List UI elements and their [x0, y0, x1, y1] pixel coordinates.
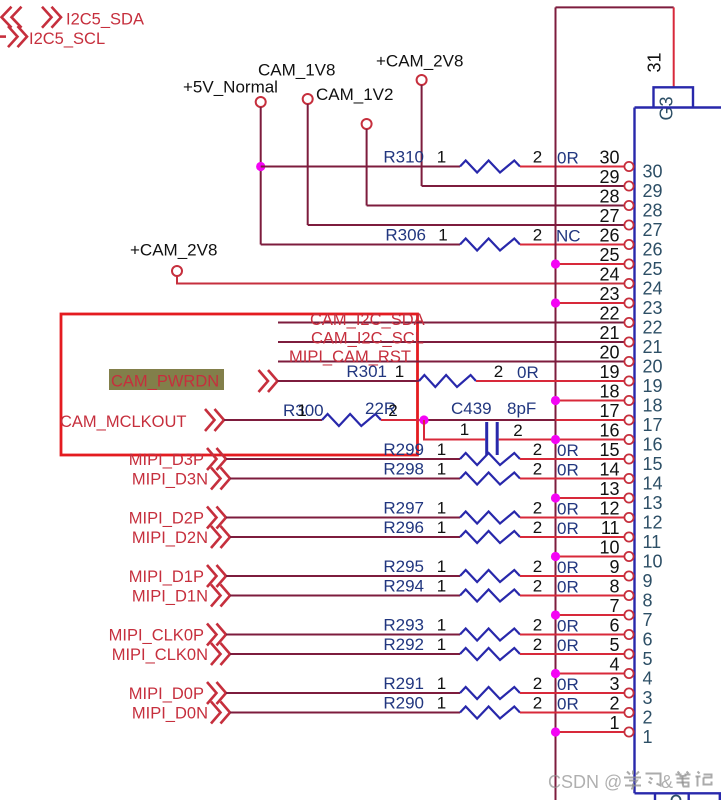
resistor R298 label [383, 460, 424, 479]
power terminal +CAM_2V8 lower [130, 241, 217, 277]
svg-text:0R: 0R [557, 441, 579, 460]
pin circle 21 [624, 337, 633, 346]
wire R292 to pin 5 [520, 653, 624, 655]
svg-text:1: 1 [297, 401, 306, 420]
pin number label 19 [599, 362, 619, 382]
connector pin number 13 [643, 493, 663, 513]
svg-text:0R: 0R [557, 617, 579, 636]
wire R295 to pin 9 [520, 575, 624, 577]
connector pin number 26 [643, 240, 663, 260]
wire ground bus to pin 25 [556, 263, 625, 265]
connector G1 label [672, 796, 681, 800]
pin circle 1 [624, 727, 633, 736]
svg-text:CAM_1V8: CAM_1V8 [258, 61, 335, 80]
net label MIPI_D3N [132, 471, 208, 489]
wire CAM_1V8 to pin 27 [308, 224, 625, 226]
resistor R293 [460, 629, 520, 641]
connector pin number 5 [643, 649, 653, 669]
connector pin number 16 [643, 435, 663, 455]
connector pin number 6 [643, 630, 653, 650]
connector pin number 4 [643, 669, 653, 689]
svg-text:11: 11 [601, 518, 620, 538]
port chevron MIPI_D3N [211, 468, 230, 490]
wire ground bus to pin 18 [556, 400, 625, 402]
connector pin number 12 [643, 513, 663, 533]
connector pin number 3 [643, 688, 653, 708]
resistor R297 [460, 512, 520, 524]
resistor R295 label [383, 557, 424, 576]
pin 1 label R306 [438, 226, 447, 245]
svg-text:1: 1 [437, 440, 446, 459]
port chevron I2C5_SDA input [2, 7, 62, 28]
svg-text:2: 2 [533, 616, 542, 635]
pin 2 label C439 [513, 421, 522, 440]
value 0R pin14 [557, 461, 579, 480]
svg-text:+CAM_2V8: +CAM_2V8 [376, 52, 463, 71]
svg-text:NC: NC [556, 227, 581, 246]
value 0R pin3 [557, 675, 579, 694]
svg-text:14: 14 [643, 474, 663, 494]
connector G2 mounting box [719, 793, 721, 800]
power terminal CAM_1V8 [258, 61, 335, 105]
net label MIPI_CLK0P [109, 627, 204, 645]
svg-text:0R: 0R [557, 695, 579, 714]
wire R293 to pin 6 [520, 634, 624, 636]
wire node to ground-bus crossing [424, 419, 556, 421]
pin 2 label R299 [533, 440, 542, 459]
pin 2 label R295 [533, 557, 542, 576]
svg-text:0R: 0R [557, 461, 579, 480]
value 0R pin11 [557, 519, 579, 538]
svg-text:31: 31 [645, 52, 665, 72]
svg-text:1: 1 [437, 616, 446, 635]
wire MIPI_CAM_RST [278, 361, 624, 363]
connector pin number 22 [643, 318, 663, 338]
pin number label 29 [599, 167, 619, 187]
svg-text:4: 4 [609, 655, 619, 675]
svg-text:2: 2 [533, 674, 542, 693]
wire ground bus to pin 13 [556, 497, 625, 499]
wire CAM_I2C_SDA [278, 322, 624, 324]
connector pin number 17 [643, 415, 663, 435]
pin circle 22 [624, 318, 633, 327]
svg-text:0R: 0R [557, 149, 579, 168]
junction ground pin 18 [551, 396, 560, 405]
resistor R306 label [385, 226, 426, 245]
svg-text:1: 1 [395, 362, 404, 381]
connector pin number 27 [643, 220, 663, 240]
svg-text:9: 9 [609, 557, 619, 577]
value 0R pin15 [557, 441, 579, 460]
svg-text:1: 1 [438, 226, 447, 245]
resistor R297 label [383, 499, 424, 518]
wire MIPI_D1N to R294 [230, 595, 460, 597]
wire ground bus to pin 4 [556, 673, 625, 675]
value 0R pin9 [557, 558, 579, 577]
pin number label 11 [601, 518, 620, 538]
svg-text:2: 2 [533, 635, 542, 654]
svg-text:18: 18 [599, 382, 619, 402]
wire MIPI_D2P to R297 [226, 517, 460, 519]
pin number label 8 [609, 577, 619, 597]
svg-text:29: 29 [643, 181, 663, 201]
svg-text:R296: R296 [383, 518, 424, 537]
connector pin number 29 [643, 181, 663, 201]
connector G1 mounting box [655, 793, 689, 800]
svg-text:30: 30 [643, 162, 663, 182]
junction ground pin 4 [551, 669, 560, 678]
resistor R310 [460, 161, 520, 173]
svg-text:30: 30 [599, 148, 619, 168]
resistor R300 label [283, 401, 324, 420]
connector pin number 20 [643, 357, 663, 377]
net label MIPI_D1P [129, 568, 204, 586]
svg-text:7: 7 [643, 610, 653, 630]
resistor R295 [460, 570, 520, 582]
resistor R306 [460, 239, 520, 251]
pin number label 12 [599, 499, 619, 519]
svg-text:R295: R295 [383, 557, 424, 576]
svg-text:19: 19 [643, 376, 663, 396]
pin number label 2 [609, 694, 619, 714]
svg-text:0R: 0R [557, 636, 579, 655]
pin circle 28 [624, 201, 633, 210]
svg-text:28: 28 [599, 187, 619, 207]
pin number label 5 [609, 635, 619, 655]
svg-text:R291: R291 [383, 674, 424, 693]
junction ground pin 25 [551, 259, 560, 268]
svg-text:1: 1 [437, 518, 446, 537]
svg-text:29: 29 [599, 167, 619, 187]
svg-text:MIPI_D2P: MIPI_D2P [129, 510, 204, 528]
power terminal CAM_1V2 [316, 85, 393, 129]
connector pin number 25 [643, 259, 663, 279]
pin 2 label R291 [533, 674, 542, 693]
svg-text:2: 2 [533, 440, 542, 459]
svg-text:28: 28 [643, 201, 663, 221]
pin 2 label R310 [533, 148, 542, 167]
svg-text:MIPI_D0N: MIPI_D0N [132, 705, 208, 723]
junction ground pin 10 [551, 552, 560, 561]
net label CAM_MCLKOUT [60, 413, 187, 431]
svg-text:19: 19 [599, 362, 619, 382]
value 0R pin5 [557, 636, 579, 655]
pin circle 8 [624, 591, 633, 600]
pin 1 label R310 [437, 148, 446, 167]
svg-text:R310: R310 [383, 148, 424, 167]
pin number label 14 [599, 460, 619, 480]
connector pin number 1 [643, 727, 653, 747]
connector pin number 2 [643, 708, 653, 728]
pin number label 22 [599, 304, 619, 324]
wire ground bus to pin 23 [556, 302, 625, 304]
svg-text:11: 11 [643, 532, 662, 552]
net label CAM_I2C_SCL [311, 330, 424, 348]
junction ground pin 1 [551, 727, 560, 736]
svg-text:MIPI_D0P: MIPI_D0P [129, 685, 204, 703]
pin 2 label R290 [533, 694, 542, 713]
wire CAM_1V2 to pin 28 [367, 205, 625, 207]
wire MIPI_D2N to R296 [230, 536, 460, 538]
pin number label 21 [599, 323, 619, 343]
svg-text:CAM_MCLKOUT: CAM_MCLKOUT [60, 413, 187, 431]
pin number label 15 [599, 440, 619, 460]
pin circle 29 [624, 181, 633, 190]
pin circle 26 [624, 240, 633, 249]
pin number label 13 [599, 479, 619, 499]
net label CAM_I2C_SDA [310, 311, 425, 329]
connector pin number 28 [643, 201, 663, 221]
svg-text:R294: R294 [383, 577, 424, 596]
svg-text:R298: R298 [383, 460, 424, 479]
svg-text:3: 3 [609, 674, 619, 694]
resistor R296 [460, 531, 520, 543]
svg-text:21: 21 [643, 337, 663, 357]
connector pin number 8 [643, 591, 653, 611]
pin circle 13 [624, 493, 633, 502]
wire CAM_I2C_SCL [278, 341, 624, 343]
pin number label 30 [599, 148, 619, 168]
svg-text:2: 2 [609, 694, 619, 714]
wire R291 to pin 3 [520, 692, 624, 694]
junction ground pin 16 [551, 435, 560, 444]
svg-text:0R: 0R [557, 519, 579, 538]
pin circle 14 [624, 474, 633, 483]
pin number label 23 [599, 284, 619, 304]
wire +CAM_2V8 to pin 24 [177, 277, 624, 284]
svg-text:I2C5_SDA: I2C5_SDA [66, 11, 144, 29]
svg-text:2: 2 [533, 499, 542, 518]
svg-text:CSDN @: CSDN @ [548, 772, 622, 792]
wire +CAM_2V8 to pin 29 [422, 185, 625, 187]
svg-text:15: 15 [643, 454, 663, 474]
resistor R294 label [383, 577, 424, 596]
pin circle 4 [624, 669, 633, 678]
svg-text:7: 7 [609, 596, 619, 616]
pin number label 10 [599, 538, 619, 558]
connector G3 label [657, 96, 677, 120]
label pin 31 [645, 52, 665, 72]
net label I2C5_SDA [66, 11, 144, 29]
svg-text:+CAM_2V8: +CAM_2V8 [130, 241, 217, 260]
wire R300 to node [381, 419, 424, 421]
junction ground pin 23 [551, 298, 560, 307]
junction +5V / R310 [256, 162, 265, 171]
wire top horizontal to pin 31 [556, 6, 674, 8]
power terminal +CAM_2V8 [376, 52, 463, 86]
wire CAM_PWRDN to R301 [278, 380, 420, 382]
net highlight CAM_PWRDN [109, 369, 224, 390]
connector pin number 21 [643, 337, 663, 357]
wire R290 to pin 2 [520, 712, 624, 714]
svg-text:0R: 0R [557, 578, 579, 597]
pin number label 17 [599, 401, 619, 421]
svg-text:R301: R301 [346, 362, 387, 381]
junction node MCLK / C439 [419, 415, 428, 424]
net label MIPI_D0N [132, 705, 208, 723]
svg-text:1: 1 [609, 713, 619, 733]
pin 2 label R292 [533, 635, 542, 654]
pin number label 24 [599, 265, 619, 285]
wire node to C439 [424, 420, 485, 440]
port chevron CAM_MCLKOUT [205, 409, 224, 431]
pin circle 20 [624, 357, 633, 366]
ground bus vertical [555, 7, 557, 800]
wire crossing to pin 17 [556, 419, 625, 421]
svg-text:18: 18 [643, 396, 663, 416]
pin 1 label R294 [437, 577, 446, 596]
pin circle 30 [624, 162, 633, 171]
pin circle 27 [624, 220, 633, 229]
svg-text:CAM_I2C_SCL: CAM_I2C_SCL [311, 330, 424, 348]
pin 1 label R297 [437, 499, 446, 518]
connector body outline [635, 108, 721, 794]
resistor R292 label [383, 635, 424, 654]
pin number label 4 [609, 655, 619, 675]
wire +5V_Normal vertical [260, 107, 262, 245]
pin number label 6 [609, 616, 619, 636]
net label MIPI_CLK0N [112, 646, 208, 664]
connector pin number 10 [643, 552, 663, 572]
connector pin number 7 [643, 610, 653, 630]
wire ground bus to pin 10 [556, 556, 625, 558]
wire R296 to pin 11 [520, 536, 624, 538]
pin number label 20 [599, 343, 619, 363]
svg-text:9: 9 [643, 571, 653, 591]
svg-text:MIPI_CLK0N: MIPI_CLK0N [112, 646, 208, 664]
svg-text:2: 2 [643, 708, 653, 728]
svg-text:24: 24 [599, 265, 619, 285]
resistor R291 label [383, 674, 424, 693]
svg-text:25: 25 [643, 259, 663, 279]
resistor R301 label [346, 362, 387, 381]
port chevron CAM_PWRDN [259, 370, 278, 392]
pin 1 label R296 [437, 518, 446, 537]
svg-text:23: 23 [599, 284, 619, 304]
pin circle 6 [624, 630, 633, 639]
svg-text:I2C5_SCL: I2C5_SCL [29, 30, 105, 48]
port chevron I2C5_SCL input [0, 26, 27, 47]
port chevron MIPI_D0N [211, 702, 230, 724]
svg-text:1: 1 [437, 148, 446, 167]
svg-text:5: 5 [643, 649, 653, 669]
resistor R299 label [383, 440, 424, 459]
svg-text:6: 6 [609, 616, 619, 636]
pin circle 15 [624, 454, 633, 463]
wire MIPI_D3N to R298 [230, 478, 460, 480]
connector pin number 11 [643, 532, 662, 552]
wire R297 to pin 12 [520, 517, 624, 519]
net label MIPI_CAM_RST [289, 348, 411, 366]
svg-text:5: 5 [609, 635, 619, 655]
wire CAM_1V8 vertical [307, 104, 309, 225]
svg-text:R293: R293 [383, 616, 424, 635]
pin circle 5 [624, 649, 633, 658]
svg-text:4: 4 [643, 669, 653, 689]
net label MIPI_D3P [129, 451, 204, 469]
svg-text:12: 12 [599, 499, 619, 519]
pin circle 11 [624, 532, 633, 541]
resistor R292 [460, 648, 520, 660]
svg-text:2: 2 [533, 557, 542, 576]
wire R294 to pin 8 [520, 595, 624, 597]
svg-text:22: 22 [599, 304, 619, 324]
svg-text:12: 12 [643, 513, 663, 533]
wire +CAM_2V8 vertical [421, 85, 423, 186]
pin 2 label R298 [533, 460, 542, 479]
pin number label 3 [609, 674, 619, 694]
svg-text:22: 22 [643, 318, 663, 338]
svg-text:CAM_I2C_SDA: CAM_I2C_SDA [310, 311, 425, 329]
svg-text:1: 1 [437, 460, 446, 479]
pin 1 label R291 [437, 674, 446, 693]
svg-text:R306: R306 [385, 226, 426, 245]
wire R301 to pin 19 [476, 380, 624, 382]
pin 2 label R294 [533, 577, 542, 596]
svg-text:1: 1 [437, 694, 446, 713]
pin 1 label C439 [460, 420, 469, 439]
svg-text:0R: 0R [517, 363, 539, 382]
svg-text:MIPI_D1N: MIPI_D1N [132, 588, 208, 606]
wire MIPI_D0P to R291 [226, 692, 460, 694]
svg-text:CAM_1V2: CAM_1V2 [316, 85, 393, 104]
svg-text:R299: R299 [383, 440, 424, 459]
svg-text:2: 2 [533, 518, 542, 537]
svg-text:MIPI_CLK0P: MIPI_CLK0P [109, 627, 204, 645]
value 0R pin19 [517, 363, 539, 382]
svg-text:1: 1 [643, 727, 653, 747]
svg-text:27: 27 [599, 206, 619, 226]
svg-text:1: 1 [437, 577, 446, 596]
svg-text:23: 23 [643, 298, 663, 318]
svg-text:10: 10 [643, 552, 663, 572]
port chevron MIPI_D2P [207, 507, 226, 529]
value 0R pin12 [557, 500, 579, 519]
svg-text:+5V_Normal: +5V_Normal [183, 78, 278, 97]
wire +5V to R306 [261, 244, 460, 246]
port chevron MIPI_CLK0N [211, 643, 230, 665]
box highlight rectangle [61, 314, 418, 455]
svg-text:2: 2 [533, 577, 542, 596]
svg-text:MIPI_D2N: MIPI_D2N [132, 529, 208, 547]
svg-text:14: 14 [599, 460, 619, 480]
svg-text:2: 2 [388, 401, 397, 420]
svg-text:CAM_PWRDN: CAM_PWRDN [111, 373, 219, 391]
wire R310 to pin 30 [520, 166, 624, 168]
port chevron MIPI_D2N [211, 526, 230, 548]
value 0R pin30 [557, 149, 579, 168]
connector pin number 23 [643, 298, 663, 318]
pin circle 2 [624, 708, 633, 717]
value 22R R300 [365, 399, 396, 418]
svg-text:26: 26 [643, 240, 663, 260]
pin number label 27 [599, 206, 619, 226]
svg-text:0R: 0R [557, 558, 579, 577]
net label MIPI_D2N [132, 529, 208, 547]
capacitor C439 [487, 422, 498, 455]
watermark CSDN text [548, 772, 622, 792]
pin 2 label R300 [388, 401, 397, 420]
svg-text:2: 2 [494, 362, 503, 381]
pin circle 25 [624, 259, 633, 268]
svg-text:20: 20 [643, 357, 663, 377]
svg-text:1: 1 [437, 635, 446, 654]
wire pin 31 vertical [673, 7, 675, 87]
svg-text:16: 16 [643, 435, 663, 455]
resistor R298 [460, 473, 520, 485]
pin 1 label R298 [437, 460, 446, 479]
net label MIPI_D1N [132, 588, 208, 606]
